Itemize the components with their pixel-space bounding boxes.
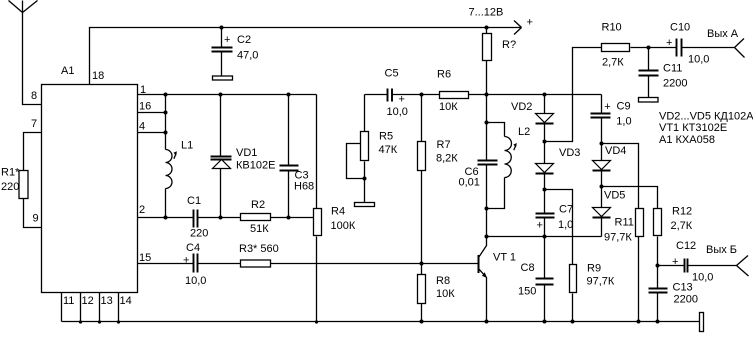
svg-text:+: + (537, 219, 543, 231)
svg-text:2200: 2200 (663, 78, 687, 90)
svg-text:А1 КХА058: А1 КХА058 (659, 134, 715, 146)
svg-text:R12: R12 (672, 206, 692, 218)
svg-text:2,7К: 2,7К (671, 220, 693, 232)
svg-text:C4: C4 (186, 242, 200, 254)
svg-text:97,7К: 97,7К (604, 232, 632, 244)
svg-text:R6: R6 (437, 69, 451, 81)
svg-text:A1: A1 (61, 65, 74, 77)
svg-text:+: + (527, 17, 533, 29)
svg-text:18: 18 (92, 70, 104, 82)
svg-text:Вых А: Вых А (707, 28, 739, 40)
svg-text:7...12В: 7...12В (469, 7, 504, 19)
svg-text:1,0: 1,0 (616, 115, 631, 127)
svg-text:Вых Б: Вых Б (706, 244, 737, 256)
svg-text:220: 220 (190, 228, 208, 240)
svg-text:+: + (666, 37, 672, 49)
svg-text:47,0: 47,0 (237, 50, 258, 62)
svg-text:C8: C8 (521, 262, 535, 274)
svg-text:+: + (604, 101, 610, 113)
svg-text:C7: C7 (559, 204, 573, 216)
svg-text:C12: C12 (676, 240, 696, 252)
svg-text:15: 15 (139, 252, 151, 264)
svg-text:51К: 51К (250, 223, 269, 235)
svg-text:10,0: 10,0 (692, 272, 713, 284)
svg-text:10,0: 10,0 (185, 275, 206, 287)
svg-text:10К: 10К (439, 101, 458, 113)
svg-text:16: 16 (139, 101, 151, 113)
svg-text:+: + (399, 94, 405, 106)
svg-text:VD5: VD5 (604, 190, 625, 202)
svg-text:97,7К: 97,7К (587, 276, 615, 288)
svg-text:VD4: VD4 (605, 145, 626, 157)
svg-text:C10: C10 (670, 21, 690, 33)
svg-text:C2: C2 (237, 34, 251, 46)
svg-text:7: 7 (31, 118, 37, 130)
svg-text:+: + (224, 34, 230, 46)
svg-text:R2: R2 (251, 199, 265, 211)
svg-text:КВ102Е: КВ102Е (236, 160, 275, 172)
svg-text:2200: 2200 (674, 294, 698, 306)
svg-text:VT 1: VT 1 (493, 252, 516, 264)
svg-text:100К: 100К (331, 220, 356, 232)
svg-text:R8: R8 (436, 275, 450, 287)
svg-text:9: 9 (33, 213, 39, 225)
svg-text:R?: R? (502, 39, 516, 51)
svg-text:13: 13 (101, 295, 113, 307)
svg-text:R11: R11 (615, 217, 634, 229)
svg-text:R10: R10 (602, 21, 622, 33)
svg-text:1: 1 (140, 84, 146, 96)
svg-text:2: 2 (139, 204, 145, 216)
svg-text:VD1: VD1 (236, 147, 257, 159)
svg-text:12: 12 (82, 295, 94, 307)
svg-text:150: 150 (518, 286, 536, 298)
svg-text:VD2: VD2 (511, 101, 532, 113)
svg-text:L2: L2 (518, 126, 530, 138)
svg-text:2,7К: 2,7К (602, 57, 624, 69)
svg-text:8: 8 (31, 90, 37, 102)
svg-text:R3* 560: R3* 560 (239, 243, 279, 255)
svg-text:C13: C13 (673, 282, 693, 294)
svg-text:+: + (672, 256, 678, 268)
svg-text:8,2К: 8,2К (436, 153, 458, 165)
svg-text:C9: C9 (617, 101, 631, 113)
svg-text:C5: C5 (385, 68, 399, 80)
svg-text:C11: C11 (663, 63, 682, 75)
svg-text:VD2...VD5 КД102А: VD2...VD5 КД102А (659, 111, 753, 123)
svg-text:10К: 10К (436, 288, 455, 300)
svg-text:1,0: 1,0 (558, 219, 573, 231)
svg-text:R7: R7 (437, 139, 451, 151)
svg-text:R9: R9 (587, 263, 601, 275)
svg-text:Н68: Н68 (294, 181, 314, 193)
svg-text:R1*: R1* (1, 167, 20, 179)
svg-text:VD3: VD3 (559, 147, 580, 159)
svg-text:10,0: 10,0 (688, 54, 709, 66)
svg-text:C1: C1 (187, 195, 201, 207)
svg-text:VT1 КТ3102Е: VT1 КТ3102Е (659, 122, 727, 134)
svg-text:47К: 47К (379, 144, 398, 156)
svg-text:+: + (183, 255, 189, 267)
svg-text:R5: R5 (379, 131, 393, 143)
svg-text:10,0: 10,0 (387, 106, 408, 118)
svg-text:11: 11 (63, 295, 74, 307)
svg-text:0,01: 0,01 (459, 177, 480, 189)
svg-text:L1: L1 (181, 140, 193, 152)
svg-text:220: 220 (1, 181, 19, 193)
svg-text:4: 4 (139, 121, 145, 133)
svg-text:R4: R4 (331, 206, 345, 218)
svg-text:14: 14 (120, 295, 132, 307)
